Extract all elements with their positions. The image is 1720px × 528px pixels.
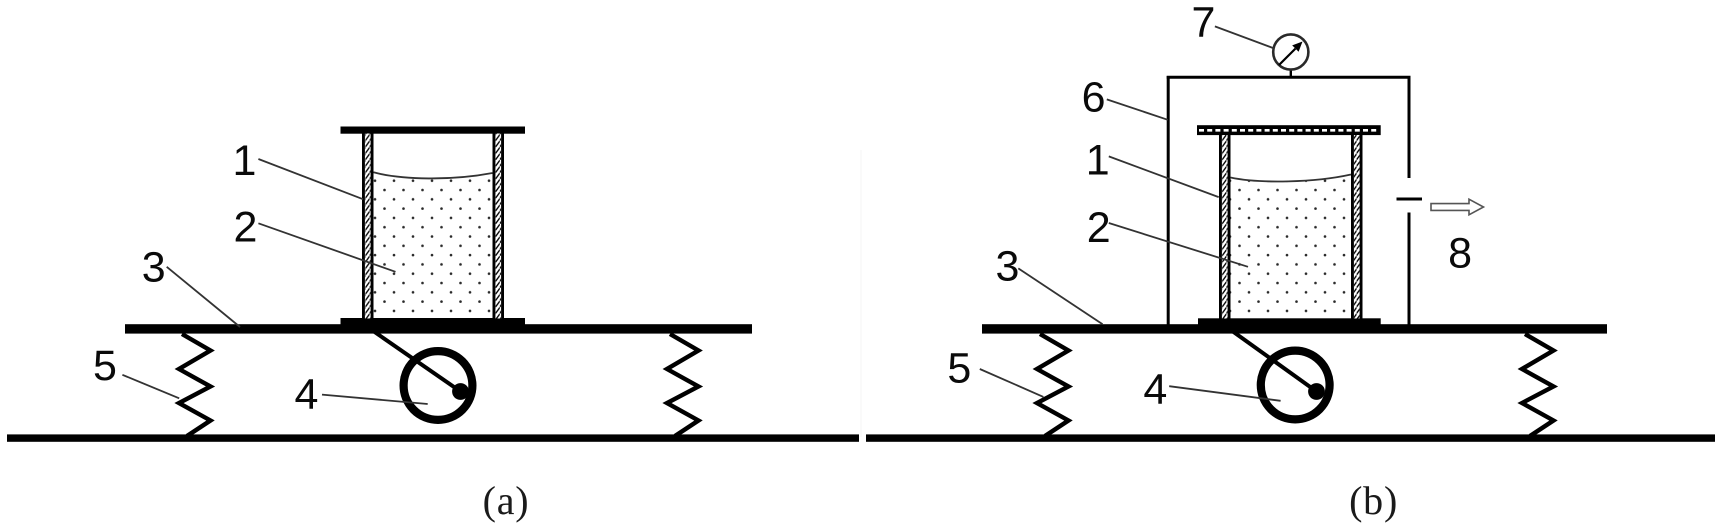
leader to 6 (b) [1107,99,1168,119]
eccentric dot (b) [1308,383,1325,400]
svg-text:5: 5 [93,342,117,390]
spring 5 left (b) [1037,334,1069,436]
leader to 5 (b) [980,369,1044,397]
container bottom plate (b) [1198,318,1381,327]
svg-text:4: 4 [295,371,319,419]
leader to 3 (b) [1018,268,1102,324]
outlet arrow 8 (b) [1431,199,1484,215]
motor crank (b) [1232,331,1317,392]
gauge 7 (b) [1273,34,1308,69]
container wall right (a) [493,134,505,319]
granular fill 2 (a) [374,172,493,318]
gauge stem (b) [1290,69,1292,78]
leader to 4 (b) [1169,386,1280,401]
spring right (a) [667,334,699,436]
svg-text:2: 2 [234,204,258,252]
container top plate (a) [341,127,526,134]
svg-text:2: 2 [1087,204,1111,252]
container top plate (b) [1197,125,1381,135]
container bottom plate (a) [341,318,526,325]
leader to 1 (a) [258,159,363,199]
vacuum chamber 6 (b) [1167,76,1411,325]
svg-text:4: 4 [1143,365,1167,413]
leader to 3 (a) [167,267,240,327]
svg-text:8: 8 [1448,230,1472,278]
granular fill 2 (b) [1231,175,1352,319]
spring right (b) [1522,334,1554,436]
outlet port tick (b) [1397,198,1423,201]
vibrator motor 4 (a) [404,351,473,420]
ground (b) [866,434,1715,441]
eccentric dot (a) [452,383,469,400]
table 3 (b) [982,324,1607,333]
table 3 (a) [125,324,752,333]
svg-text:7: 7 [1191,0,1215,47]
svg-text:1: 1 [233,137,257,185]
svg-text:6: 6 [1082,74,1106,122]
svg-text:(a): (a) [483,478,530,523]
svg-text:3: 3 [142,244,166,292]
gauge needle (b) [1279,42,1303,66]
leader to 1 (b) [1109,156,1219,197]
svg-text:3: 3 [995,243,1019,291]
leader to 7 (b) [1215,26,1275,48]
leader to 4 (a) [322,395,428,404]
svg-text:5: 5 [947,344,971,392]
faint panel divider [860,150,862,437]
container wall right (b) [1351,135,1363,319]
spring 5 left (a) [179,334,211,436]
svg-text:(b): (b) [1349,478,1398,523]
container wall 1 left (a) [362,134,374,319]
container wall 1 left (b) [1219,135,1231,319]
leader to 2 (b) [1109,223,1248,267]
ground (a) [7,434,859,441]
motor crank (a) [373,331,461,392]
vibrator motor 4 (b) [1261,351,1330,420]
leader to 2 (a) [258,223,395,271]
svg-text:1: 1 [1086,137,1110,185]
leader to 5 (a) [122,375,179,399]
